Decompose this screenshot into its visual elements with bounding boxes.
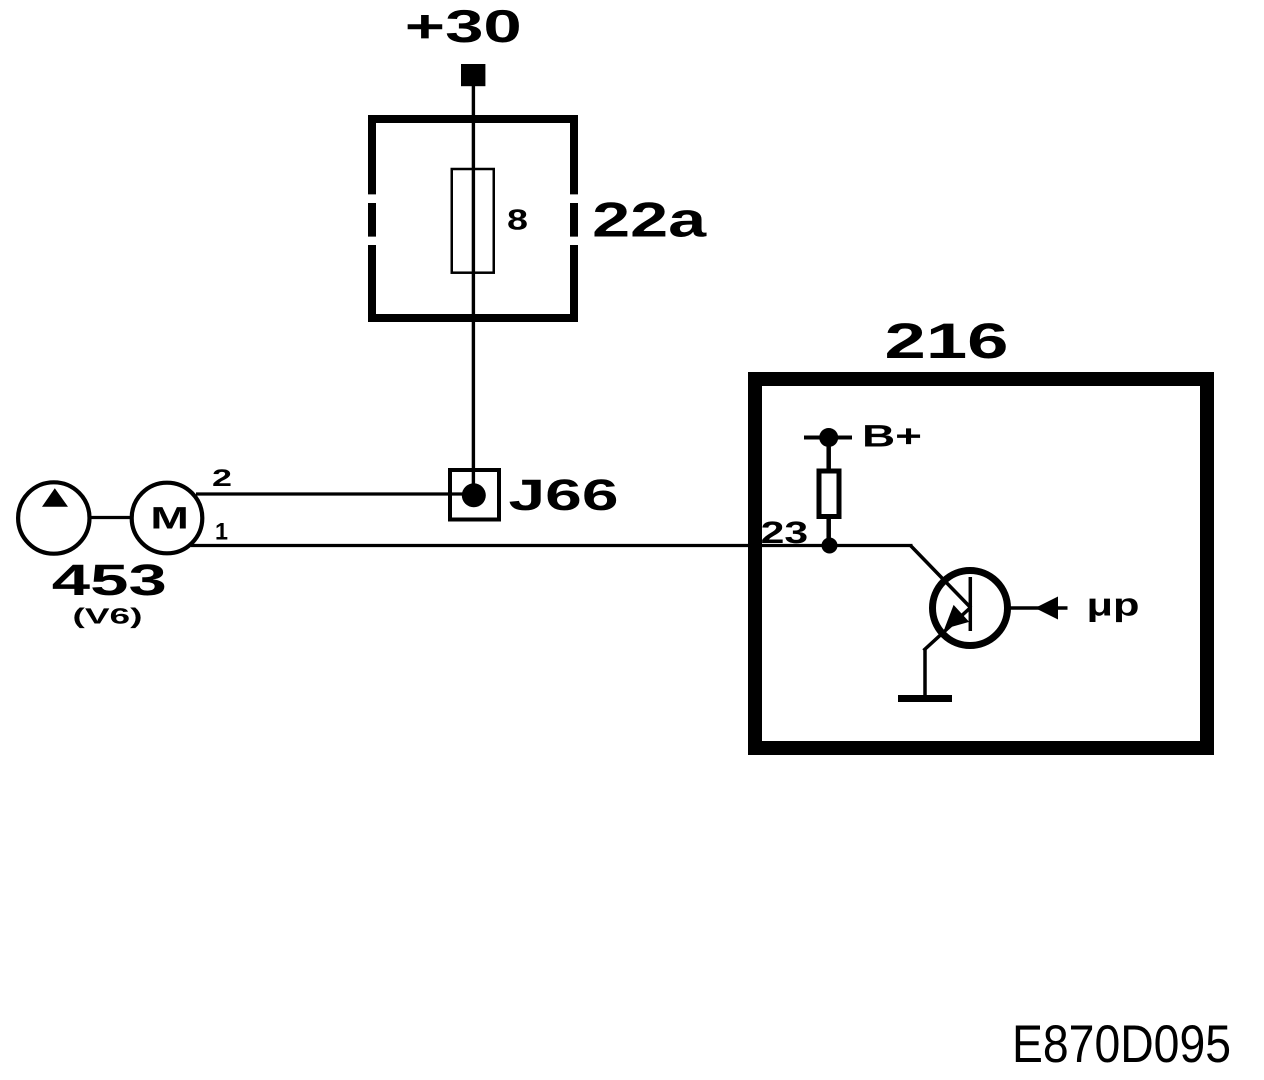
svg-text:2: 2 bbox=[212, 465, 232, 492]
svg-text:+30: +30 bbox=[405, 0, 522, 52]
resistor (pull-up) bbox=[819, 471, 839, 517]
transistor emitter arrow bbox=[944, 605, 969, 629]
node 23 junction dot bbox=[822, 538, 838, 554]
svg-text:J66: J66 bbox=[509, 471, 619, 520]
svg-text:1: 1 bbox=[215, 519, 228, 546]
wire node 23 to transistor base (diagonal) bbox=[911, 546, 972, 609]
ECU box 216 bbox=[755, 379, 1207, 748]
wire from +30 terminal down through fuse to J66 bbox=[472, 86, 475, 495]
svg-text:22a: 22a bbox=[592, 194, 707, 248]
svg-text:453: 453 bbox=[52, 556, 167, 605]
wire resistor to node 23 bbox=[826, 517, 831, 545]
svg-text:E870D095: E870D095 bbox=[1012, 1015, 1231, 1074]
fuse 8 (element rectangle) bbox=[452, 169, 494, 273]
junction J66 dot bbox=[462, 483, 486, 507]
node B+ stub line bbox=[804, 436, 852, 440]
wire B+ to resistor bbox=[826, 446, 831, 470]
wire pin 2 of motor to junction J66 bbox=[196, 492, 474, 495]
ground bbox=[898, 695, 952, 702]
transistor emitter line (diagonal) bbox=[924, 608, 971, 651]
sensor symbol (circle with triangle) of 453 bbox=[18, 482, 89, 553]
svg-text:(V6): (V6) bbox=[73, 603, 143, 628]
triangle inside sensor bbox=[42, 488, 68, 507]
fuse holder box 22a (dashed sides) bbox=[368, 115, 578, 322]
svg-text:216: 216 bbox=[885, 313, 1009, 369]
transistor base bar bbox=[969, 577, 973, 631]
emitter wire down to ground bbox=[923, 649, 927, 698]
terminal +30 (filled square) bbox=[461, 64, 485, 86]
arrow to microprocessor (points left) bbox=[1035, 597, 1058, 620]
wire sensor to motor bbox=[90, 516, 133, 519]
svg-text:8: 8 bbox=[507, 205, 528, 237]
motor circle M of pump 453 bbox=[132, 483, 203, 554]
wire pin 1 of motor to ECU 216 pin 23 bbox=[191, 544, 913, 547]
transistor Q circle bbox=[933, 571, 1008, 646]
node B+ dot bbox=[819, 428, 838, 447]
svg-text:23: 23 bbox=[761, 515, 809, 550]
transistor collector line to microprocessor bbox=[1007, 606, 1068, 610]
junction J66 box bbox=[450, 470, 499, 520]
svg-text:μp: μp bbox=[1087, 586, 1140, 622]
svg-text:B+: B+ bbox=[862, 419, 922, 454]
svg-text:M: M bbox=[150, 500, 189, 535]
